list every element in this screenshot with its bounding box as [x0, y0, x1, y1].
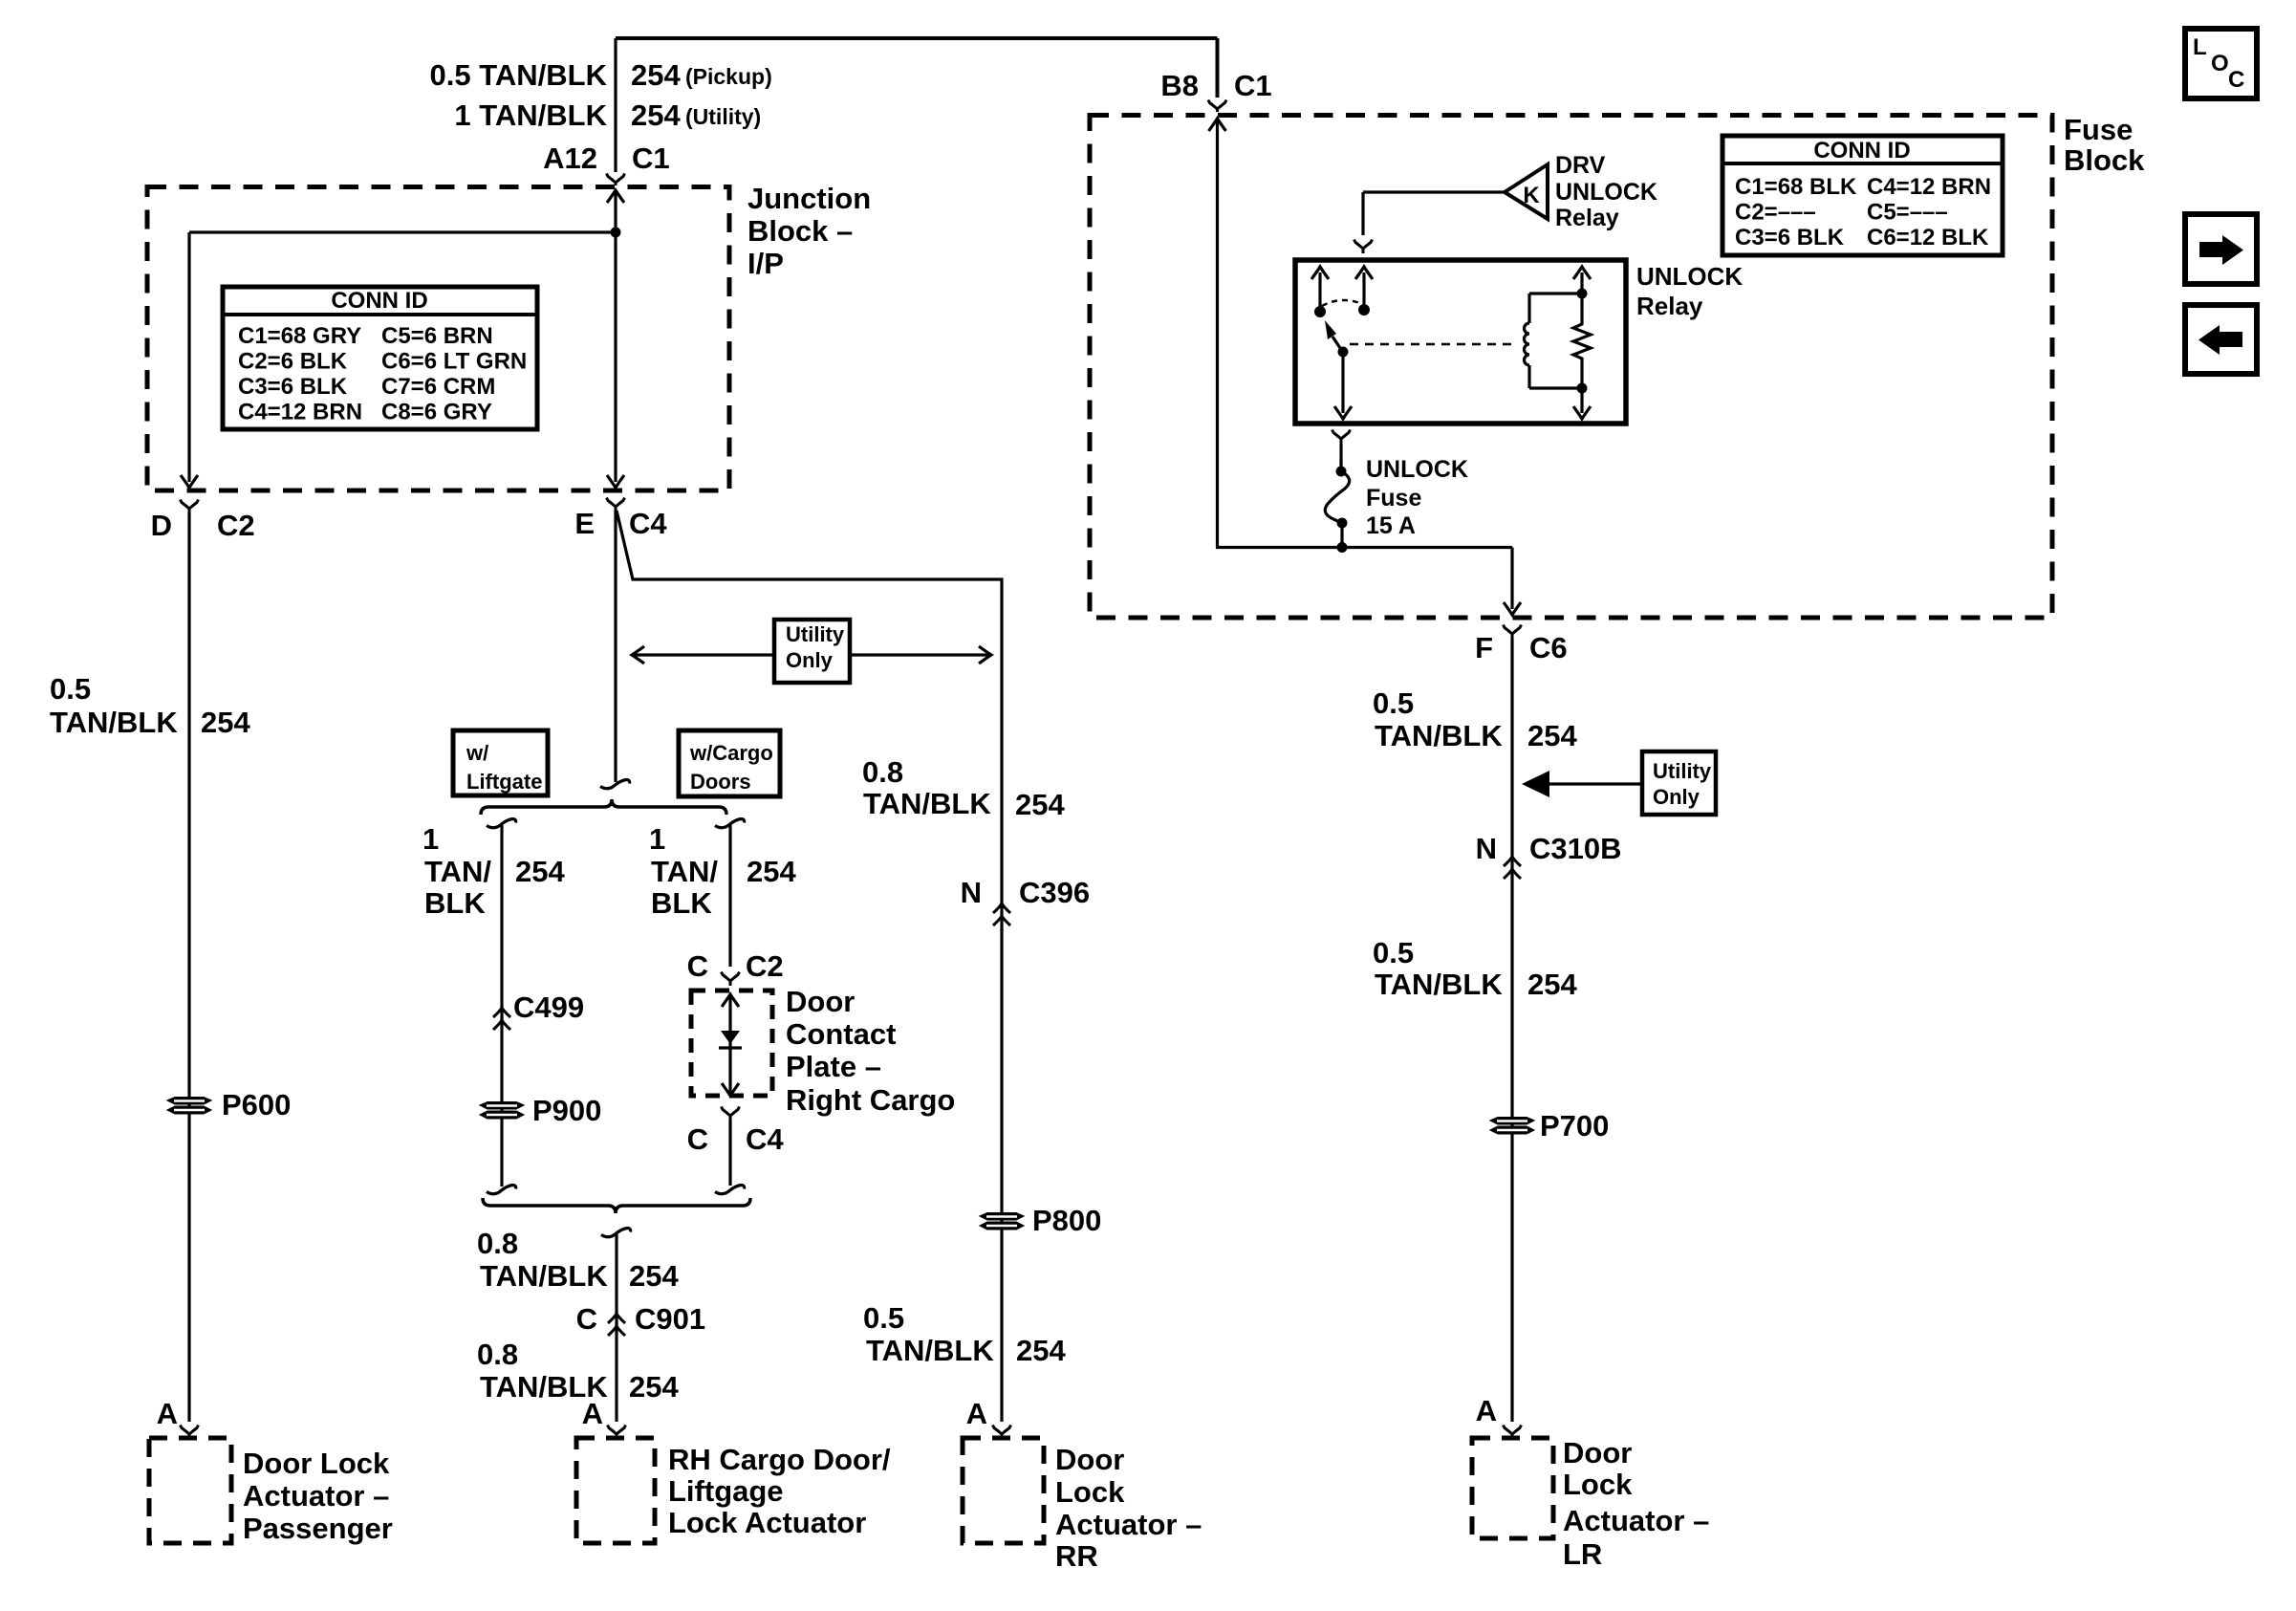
svg-text:Contact: Contact	[786, 1017, 896, 1051]
svg-text:Lock: Lock	[1055, 1475, 1125, 1509]
svg-text:w/Cargo: w/Cargo	[689, 741, 773, 765]
svg-text:TAN/: TAN/	[651, 855, 718, 888]
svg-text:C1: C1	[632, 142, 670, 175]
svg-text:TAN/BLK: TAN/BLK	[866, 1334, 994, 1367]
svg-text:Passenger: Passenger	[243, 1512, 393, 1545]
svg-text:Utility: Utility	[1653, 759, 1712, 783]
svg-text:BLK: BLK	[424, 886, 486, 920]
svg-text:UNLOCK: UNLOCK	[1636, 262, 1743, 291]
svg-text:Actuator –: Actuator –	[1055, 1508, 1202, 1541]
svg-text:C3=6 BLK: C3=6 BLK	[1735, 225, 1845, 250]
svg-text:E: E	[574, 507, 595, 540]
svg-text:C396: C396	[1019, 876, 1090, 909]
svg-text:N: N	[1476, 832, 1497, 865]
svg-text:Lock: Lock	[1563, 1468, 1633, 1501]
svg-text:C6=12 BLK: C6=12 BLK	[1867, 225, 1989, 250]
svg-text:C4=12 BRN: C4=12 BRN	[1867, 174, 1991, 200]
svg-text:TAN/: TAN/	[424, 855, 491, 888]
svg-text:0.8: 0.8	[862, 755, 903, 789]
svg-text:C5=6 BRN: C5=6 BRN	[381, 323, 493, 349]
svg-text:K: K	[1523, 183, 1540, 208]
svg-text:254: 254	[1527, 719, 1577, 752]
svg-text:C: C	[576, 1302, 597, 1336]
svg-text:0.5: 0.5	[50, 672, 91, 706]
svg-text:B8: B8	[1160, 69, 1199, 102]
svg-text:254: 254	[201, 706, 250, 739]
svg-text:TAN/BLK: TAN/BLK	[1375, 968, 1503, 1001]
svg-text:Door: Door	[1055, 1443, 1124, 1476]
svg-text:0.8: 0.8	[477, 1227, 518, 1260]
svg-text:Right Cargo: Right Cargo	[786, 1083, 955, 1117]
svg-text:C7=6 CRM: C7=6 CRM	[381, 374, 495, 400]
svg-text:Door Lock: Door Lock	[243, 1447, 390, 1480]
svg-text:C: C	[687, 1122, 708, 1156]
svg-text:UNLOCK: UNLOCK	[1366, 456, 1468, 483]
svg-text:Door: Door	[786, 985, 855, 1018]
svg-text:Door: Door	[1563, 1436, 1632, 1469]
svg-text:N: N	[961, 876, 982, 909]
svg-text:C2=–––: C2=–––	[1735, 200, 1816, 226]
svg-text:0.5: 0.5	[1373, 686, 1414, 720]
svg-text:Actuator –: Actuator –	[243, 1479, 389, 1513]
svg-text:CONN ID: CONN ID	[331, 288, 427, 314]
svg-text:P900: P900	[532, 1094, 601, 1127]
svg-text:1 TAN/BLK: 1 TAN/BLK	[454, 98, 607, 132]
svg-text:254: 254	[1527, 968, 1577, 1001]
svg-text:DRV: DRV	[1555, 152, 1606, 179]
svg-text:A: A	[966, 1397, 987, 1430]
svg-text:C: C	[2228, 67, 2244, 93]
svg-text:254: 254	[629, 1259, 679, 1293]
svg-text:O: O	[2211, 51, 2229, 76]
svg-text:254: 254	[747, 855, 796, 888]
svg-text:C1: C1	[1234, 69, 1272, 102]
svg-text:Block –: Block –	[747, 214, 853, 248]
svg-text:Actuator –: Actuator –	[1563, 1504, 1709, 1537]
svg-text:(Utility): (Utility)	[685, 104, 761, 129]
svg-text:LR: LR	[1563, 1537, 1602, 1571]
svg-text:254: 254	[1015, 788, 1065, 821]
svg-text:254: 254	[631, 98, 681, 132]
svg-text:Relay: Relay	[1555, 205, 1619, 231]
svg-text:P700: P700	[1540, 1109, 1609, 1143]
svg-text:0.5: 0.5	[863, 1301, 904, 1335]
svg-text:Fuse: Fuse	[2064, 113, 2133, 146]
svg-text:C2=6 BLK: C2=6 BLK	[238, 349, 348, 375]
svg-text:C310B: C310B	[1529, 832, 1622, 865]
svg-text:C2: C2	[746, 949, 784, 983]
svg-text:1: 1	[649, 822, 665, 856]
svg-text:C: C	[687, 949, 708, 983]
svg-text:0.5: 0.5	[1373, 936, 1414, 969]
svg-text:0.8: 0.8	[477, 1338, 518, 1371]
svg-text:A: A	[582, 1397, 603, 1430]
svg-text:Liftgage: Liftgage	[668, 1474, 784, 1508]
svg-text:A12: A12	[543, 142, 597, 175]
svg-text:254: 254	[631, 58, 681, 92]
svg-text:C3=6 BLK: C3=6 BLK	[238, 374, 348, 400]
svg-text:C901: C901	[635, 1302, 705, 1336]
svg-text:Doors: Doors	[690, 770, 751, 794]
svg-text:Plate –: Plate –	[786, 1050, 881, 1083]
svg-text:C4: C4	[746, 1122, 784, 1156]
svg-text:UNLOCK: UNLOCK	[1555, 179, 1657, 206]
svg-text:Liftgate: Liftgate	[466, 770, 542, 794]
svg-text:C8=6 GRY: C8=6 GRY	[381, 400, 492, 425]
svg-text:Lock Actuator: Lock Actuator	[668, 1506, 866, 1539]
svg-text:CONN ID: CONN ID	[1813, 138, 1910, 163]
svg-text:C1=68 GRY: C1=68 GRY	[238, 323, 361, 349]
svg-text:C6: C6	[1529, 631, 1568, 664]
svg-text:Only: Only	[1653, 785, 1700, 809]
svg-text:F: F	[1475, 631, 1493, 664]
svg-text:254: 254	[1016, 1334, 1066, 1367]
svg-text:C5=–––: C5=–––	[1867, 200, 1948, 226]
svg-text:Utility: Utility	[786, 622, 845, 646]
svg-text:TAN/BLK: TAN/BLK	[480, 1259, 608, 1293]
svg-text:C4=12 BRN: C4=12 BRN	[238, 400, 362, 425]
svg-text:TAN/BLK: TAN/BLK	[863, 787, 991, 820]
svg-text:Fuse: Fuse	[1366, 485, 1421, 512]
svg-text:BLK: BLK	[651, 886, 712, 920]
svg-text:A: A	[1476, 1394, 1497, 1427]
svg-text:254: 254	[629, 1370, 679, 1404]
svg-text:Relay: Relay	[1636, 292, 1703, 320]
svg-text:Block: Block	[2064, 143, 2145, 177]
svg-text:C4: C4	[629, 507, 667, 540]
svg-text:C6=6 LT GRN: C6=6 LT GRN	[381, 349, 527, 375]
svg-text:0.5 TAN/BLK: 0.5 TAN/BLK	[430, 58, 608, 92]
svg-text:L: L	[2193, 34, 2207, 60]
svg-text:254: 254	[515, 855, 565, 888]
svg-text:P800: P800	[1032, 1204, 1101, 1237]
svg-text:1: 1	[422, 822, 439, 856]
svg-text:TAN/BLK: TAN/BLK	[50, 706, 178, 739]
svg-text:A: A	[157, 1397, 178, 1430]
svg-text:P600: P600	[222, 1088, 291, 1121]
svg-text:Only: Only	[786, 648, 834, 672]
svg-text:RR: RR	[1055, 1539, 1098, 1573]
svg-text:(Pickup): (Pickup)	[685, 64, 772, 89]
svg-text:RH Cargo Door/: RH Cargo Door/	[668, 1443, 891, 1476]
svg-text:I/P: I/P	[747, 247, 784, 280]
svg-text:TAN/BLK: TAN/BLK	[1375, 719, 1503, 752]
svg-text:Junction: Junction	[747, 182, 871, 215]
svg-text:C1=68 BLK: C1=68 BLK	[1735, 174, 1857, 200]
svg-text:w/: w/	[466, 741, 488, 765]
svg-text:15 A: 15 A	[1366, 512, 1416, 539]
svg-text:C2: C2	[217, 509, 255, 542]
svg-text:C499: C499	[513, 991, 584, 1024]
svg-text:D: D	[151, 509, 172, 542]
